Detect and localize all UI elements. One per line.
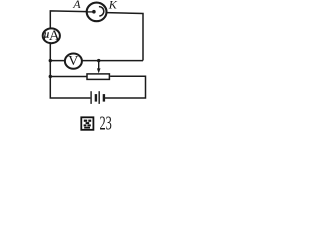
svg-text:A: A bbox=[49, 28, 60, 44]
svg-text:V: V bbox=[68, 54, 78, 69]
svg-text:23: 23 bbox=[100, 111, 112, 134]
svg-text:A: A bbox=[72, 0, 81, 11]
svg-text:K: K bbox=[108, 0, 118, 11]
